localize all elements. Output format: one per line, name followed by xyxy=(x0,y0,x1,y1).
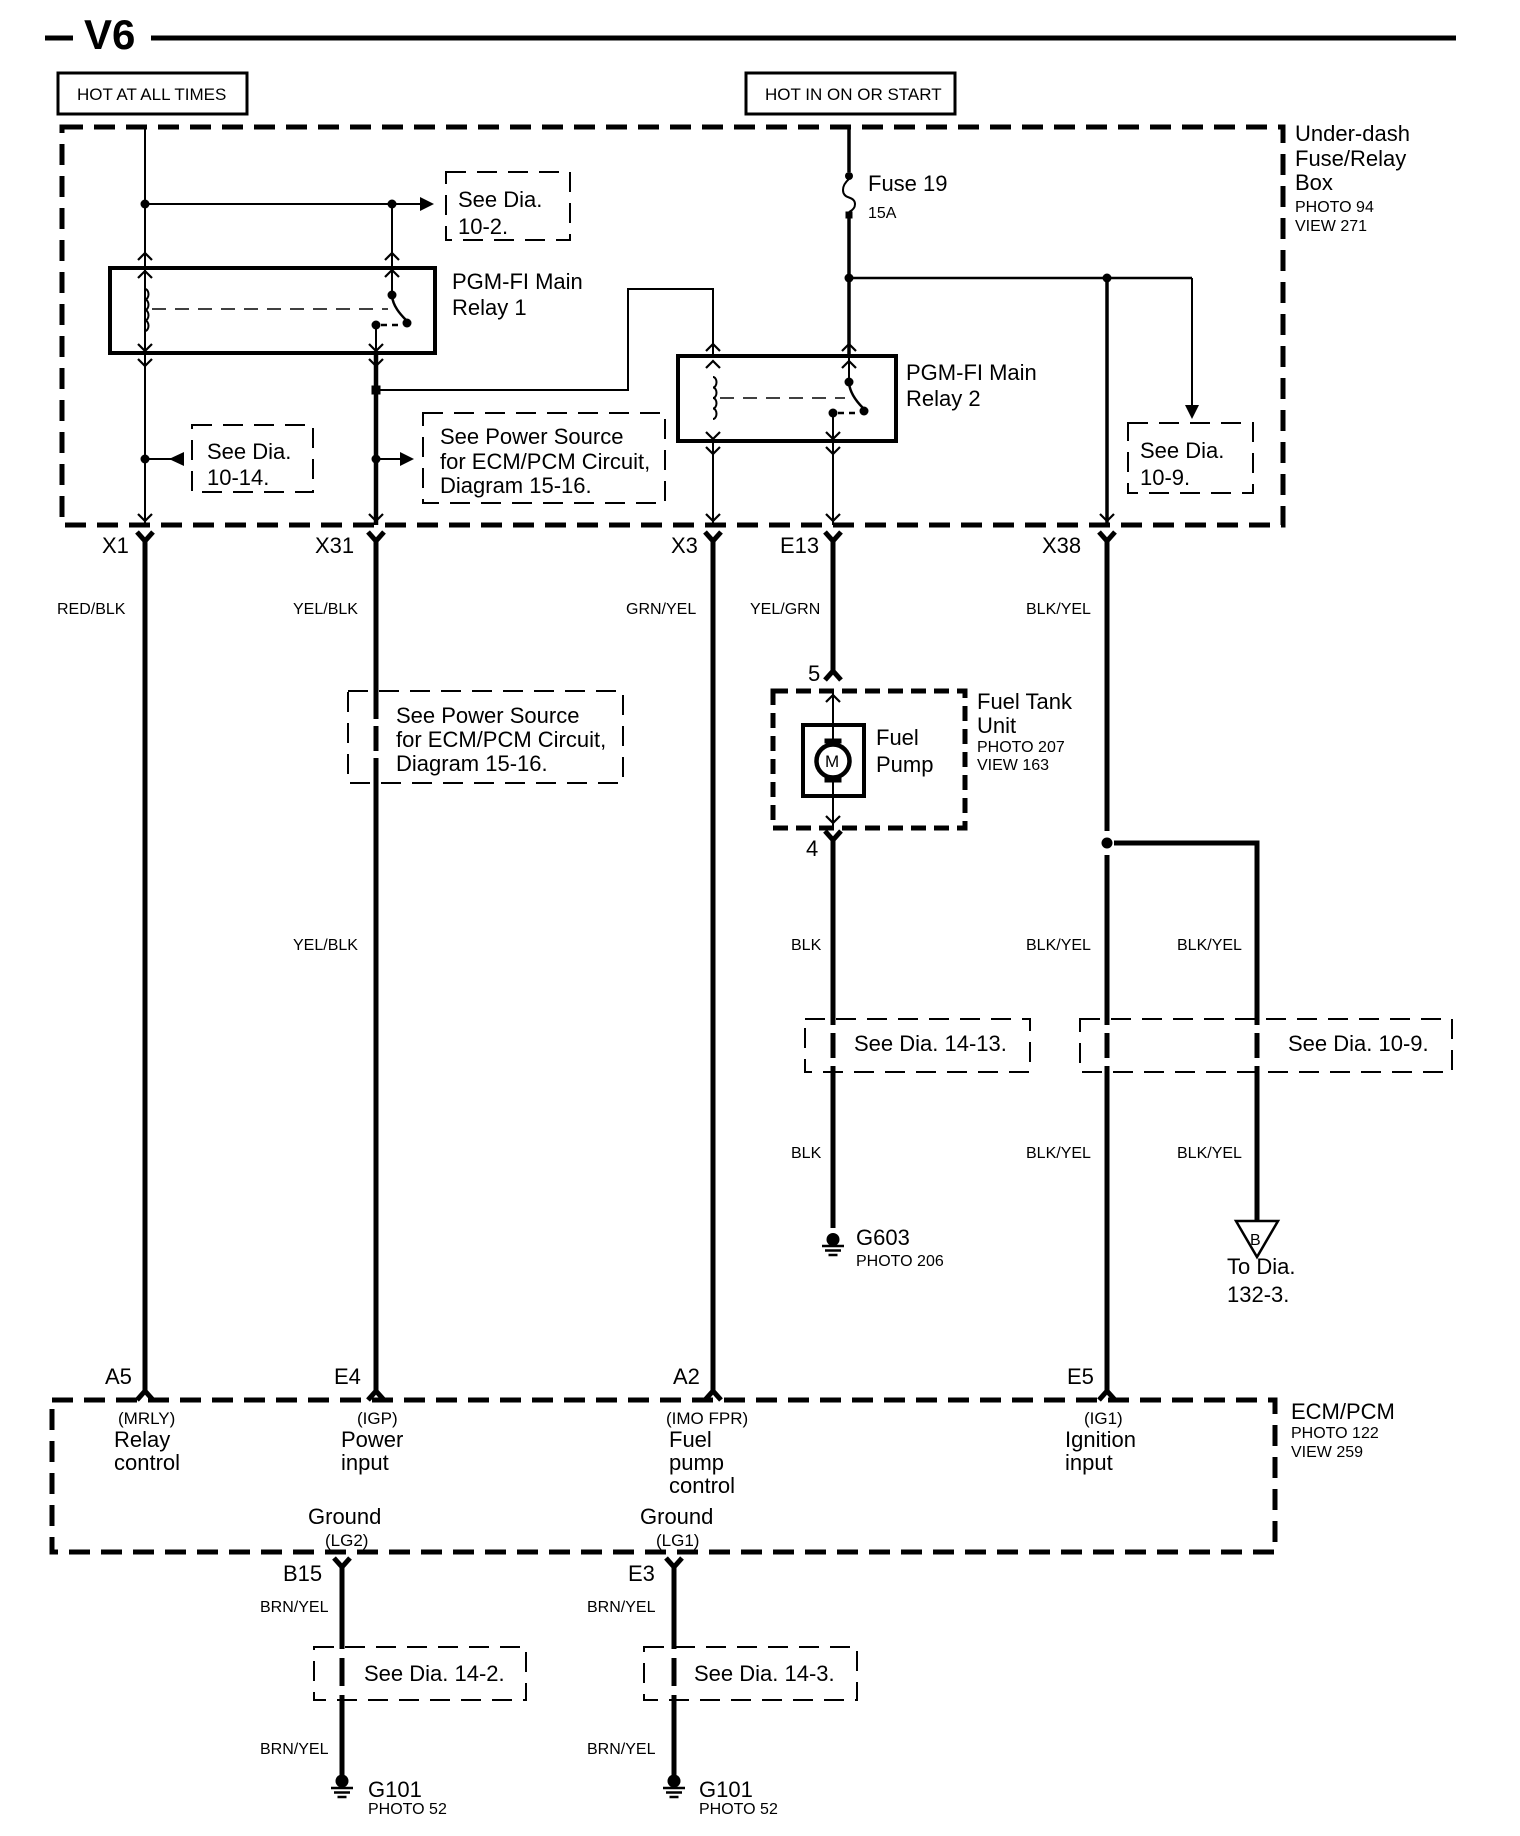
node junction on X1 wire at y459 xyxy=(141,455,150,464)
svg-text:YEL/GRN: YEL/GRN xyxy=(750,601,820,618)
svg-text:E4: E4 xyxy=(334,1364,361,1389)
svg-text:See Dia.: See Dia. xyxy=(458,187,542,212)
box See Dia. 10-14. xyxy=(192,425,313,492)
pin E3 Ground (LG1) xyxy=(628,1504,713,1586)
wire E3 BRN/YEL to G101 xyxy=(672,1565,677,1775)
svg-text:Under-dash: Under-dash xyxy=(1295,121,1410,146)
svg-text:BLK/YEL: BLK/YEL xyxy=(1026,937,1091,954)
svg-text:See Dia.: See Dia. xyxy=(207,439,291,464)
svg-text:BLK: BLK xyxy=(791,937,822,954)
box See Dia. 14-3. xyxy=(644,1647,857,1700)
svg-text:See Power Source: See Power Source xyxy=(440,424,623,449)
node pin 4 fuel tank unit xyxy=(806,831,841,861)
wire fuse feed column xyxy=(847,127,851,172)
svg-text:PHOTO 94: PHOTO 94 xyxy=(1295,199,1374,216)
svg-text:BLK/YEL: BLK/YEL xyxy=(1177,1145,1242,1162)
wire X3 to ECM A2 xyxy=(711,539,716,1391)
node junction X38 tap xyxy=(1103,274,1112,283)
svg-text:PGM-FI Main: PGM-FI Main xyxy=(906,360,1037,385)
ECM/PCM box xyxy=(52,1400,1275,1552)
wire X3 below relay 2 xyxy=(712,441,714,525)
wire X38 to ECM E5 xyxy=(1105,539,1110,1391)
svg-text:(IG1): (IG1) xyxy=(1084,1409,1123,1428)
svg-text:BRN/YEL: BRN/YEL xyxy=(260,1741,329,1758)
label Under-dash Fuse/Relay Box xyxy=(1295,121,1410,235)
wire into fuel pump xyxy=(826,691,840,744)
relay K2 PGM-FI Main Relay 2 xyxy=(678,356,896,441)
svg-text:PHOTO 122: PHOTO 122 xyxy=(1291,1425,1379,1442)
pin E5 (IG1) Ignition input xyxy=(1065,1364,1136,1475)
svg-text:VIEW 271: VIEW 271 xyxy=(1295,218,1367,235)
ground G603 xyxy=(822,1225,944,1270)
svg-text:X38: X38 xyxy=(1042,533,1081,558)
svg-text:(LG2): (LG2) xyxy=(325,1531,368,1550)
label HOT AT ALL TIMES xyxy=(58,73,247,114)
svg-text:Unit: Unit xyxy=(977,713,1016,738)
pin E4 (IGP) Power input xyxy=(334,1364,403,1475)
svg-text:See Dia. 14-13.: See Dia. 14-13. xyxy=(854,1031,1007,1056)
label PGM-FI Main Relay 1 xyxy=(452,269,583,320)
svg-text:(MRLY): (MRLY) xyxy=(118,1409,175,1428)
wire arrow from See Dia. 10-14. xyxy=(145,452,184,466)
svg-text:Relay: Relay xyxy=(114,1427,170,1452)
svg-text:M: M xyxy=(825,752,839,771)
wire color labels row 5 xyxy=(260,1741,656,1758)
relay K1 actuation dashed line xyxy=(152,308,388,310)
pin A5 (MRLY) Relay control xyxy=(105,1364,180,1475)
svg-text:B: B xyxy=(1250,1232,1261,1249)
border exit chevrons xyxy=(138,514,1114,521)
wire branch to triangle B xyxy=(1114,843,1257,1221)
wire bus y278 to X38 and See Dia. 10-9. xyxy=(849,277,1192,280)
svg-text:G101: G101 xyxy=(699,1777,753,1802)
node junction at y204 on X1 wire xyxy=(141,200,150,209)
wire X38 column inside fuse box xyxy=(1105,278,1109,525)
svg-text:See Dia. 10-9.: See Dia. 10-9. xyxy=(1288,1031,1429,1056)
wire color labels row 1 xyxy=(57,601,1091,618)
svg-text:A5: A5 xyxy=(105,1364,132,1389)
svg-text:10-2.: 10-2. xyxy=(458,214,508,239)
svg-text:PHOTO 52: PHOTO 52 xyxy=(699,1801,778,1818)
wire color labels row 4 xyxy=(260,1599,656,1616)
svg-text:(LG1): (LG1) xyxy=(656,1531,699,1550)
under-dash fuse/relay box xyxy=(62,127,1283,525)
svg-text:Ground: Ground xyxy=(640,1504,713,1529)
svg-text:E13: E13 xyxy=(780,533,819,558)
fuel pump box xyxy=(803,725,864,796)
svg-text:control: control xyxy=(669,1473,735,1498)
svg-text:VIEW 259: VIEW 259 xyxy=(1291,1444,1363,1461)
pin A2 (IMO FPR) Fuel pump control xyxy=(666,1364,748,1498)
svg-text:To Dia.: To Dia. xyxy=(1227,1254,1295,1279)
svg-text:GRN/YEL: GRN/YEL xyxy=(626,601,696,618)
fuel tank unit dashed box xyxy=(773,691,965,828)
svg-text:HOT IN ON OR START: HOT IN ON OR START xyxy=(765,85,942,104)
svg-text:pump: pump xyxy=(669,1450,724,1475)
svg-text:for ECM/PCM Circuit,: for ECM/PCM Circuit, xyxy=(440,449,650,474)
svg-text:A2: A2 xyxy=(673,1364,700,1389)
svg-text:10-9.: 10-9. xyxy=(1140,465,1190,490)
svg-text:BLK/YEL: BLK/YEL xyxy=(1177,937,1242,954)
wire E13 BLK to G603 xyxy=(831,838,836,1228)
wire X1 to ECM A5 xyxy=(143,539,148,1391)
svg-text:Box: Box xyxy=(1295,170,1333,195)
svg-text:ECM/PCM: ECM/PCM xyxy=(1291,1399,1395,1424)
svg-text:HOT AT ALL TIMES: HOT AT ALL TIMES xyxy=(77,85,226,104)
svg-text:BLK: BLK xyxy=(791,1145,822,1162)
svg-text:5: 5 xyxy=(808,661,820,686)
svg-text:Diagram 15-16.: Diagram 15-16. xyxy=(440,473,592,498)
node X31 connector xyxy=(315,532,384,558)
wire X1 column inside fuse box xyxy=(144,127,146,525)
wire arrow down into See Dia. 10-9. xyxy=(1185,278,1199,419)
svg-text:See Power Source: See Power Source xyxy=(396,703,579,728)
svg-text:E5: E5 xyxy=(1067,1364,1094,1389)
wire relay 1 switch input xyxy=(385,204,399,295)
relay K2 switch xyxy=(826,344,869,454)
svg-text:E3: E3 xyxy=(628,1561,655,1586)
svg-text:G603: G603 xyxy=(856,1225,910,1250)
svg-text:Fuel: Fuel xyxy=(876,725,919,750)
ground G101 (left) xyxy=(331,1775,447,1819)
svg-text:YEL/BLK: YEL/BLK xyxy=(293,937,358,954)
svg-text:BLK/YEL: BLK/YEL xyxy=(1026,1145,1091,1162)
svg-text:Fuel Tank: Fuel Tank xyxy=(977,689,1073,714)
svg-text:See Dia. 14-3.: See Dia. 14-3. xyxy=(694,1661,835,1686)
svg-text:(IMO FPR): (IMO FPR) xyxy=(666,1409,748,1428)
svg-text:V6: V6 xyxy=(84,11,135,58)
title V6 xyxy=(45,11,1456,58)
wire arrow to See Power Source box xyxy=(376,452,414,466)
node E13 connector xyxy=(780,532,841,558)
node junction on X31 at y459 xyxy=(372,455,381,464)
svg-text:G101: G101 xyxy=(368,1777,422,1802)
fuse F19 15A xyxy=(843,171,948,222)
svg-text:RED/BLK: RED/BLK xyxy=(57,601,126,618)
box See Dia. 10-9. (right) xyxy=(1080,1019,1452,1072)
node pin 5 fuel tank unit xyxy=(808,661,841,686)
svg-text:Ground: Ground xyxy=(308,1504,381,1529)
svg-text:See Dia. 14-2.: See Dia. 14-2. xyxy=(364,1661,505,1686)
svg-text:4: 4 xyxy=(806,836,818,861)
wire feed to relay 2 coil xyxy=(376,289,713,390)
relay K2 coil xyxy=(706,344,720,454)
label PGM-FI Main Relay 2 xyxy=(906,360,1037,411)
box See Dia. 14-13. xyxy=(805,1019,1030,1072)
svg-text:for ECM/PCM Circuit,: for ECM/PCM Circuit, xyxy=(396,727,606,752)
label Fuel Tank Unit xyxy=(977,689,1073,774)
pin B15 Ground (LG2) xyxy=(283,1504,381,1586)
svg-text:X31: X31 xyxy=(315,533,354,558)
node T-junction X31 to relay 2 feed xyxy=(372,386,381,395)
box See Dia. 10-9. (inside fuse box) xyxy=(1128,423,1253,493)
svg-text:15A: 15A xyxy=(868,205,897,222)
motor M fuel pump xyxy=(817,739,850,783)
relay K1 coil xyxy=(138,253,152,366)
label HOT IN ON OR START xyxy=(746,73,955,114)
wire color labels row 3 xyxy=(791,1145,1242,1162)
ground G101 (right) xyxy=(663,1775,778,1819)
svg-text:Fuse/Relay: Fuse/Relay xyxy=(1295,146,1406,171)
svg-text:Diagram 15-16.: Diagram 15-16. xyxy=(396,751,548,776)
node X3 connector xyxy=(671,532,721,558)
node junction X38 branch xyxy=(1102,838,1113,849)
svg-text:X3: X3 xyxy=(671,533,698,558)
svg-text:Power: Power xyxy=(341,1427,403,1452)
wire fuse to relay 2 switch xyxy=(847,216,851,356)
svg-text:input: input xyxy=(1065,1450,1113,1475)
svg-text:Fuse 19: Fuse 19 xyxy=(868,171,948,196)
svg-text:control: control xyxy=(114,1450,180,1475)
wire color labels row 2 xyxy=(293,937,1242,954)
connector B to Dia. 132-3 (triangle) xyxy=(1227,1221,1295,1307)
label ECM/PCM xyxy=(1291,1399,1395,1461)
svg-text:Relay 2: Relay 2 xyxy=(906,386,981,411)
svg-text:BRN/YEL: BRN/YEL xyxy=(587,1741,656,1758)
wire E13 below relay 2 xyxy=(832,441,834,525)
relay K1 PGM-FI Main Relay 1 xyxy=(110,268,435,353)
node junction fuse output y278 xyxy=(845,274,854,283)
svg-text:YEL/BLK: YEL/BLK xyxy=(293,601,358,618)
svg-text:VIEW 163: VIEW 163 xyxy=(977,757,1049,774)
svg-text:PHOTO 207: PHOTO 207 xyxy=(977,739,1065,756)
svg-text:Relay 1: Relay 1 xyxy=(452,295,527,320)
svg-text:132-3.: 132-3. xyxy=(1227,1282,1289,1307)
relay K1 switch xyxy=(369,291,412,367)
svg-text:X1: X1 xyxy=(102,533,129,558)
svg-text:input: input xyxy=(341,1450,389,1475)
wire to See Dia. 10-2. xyxy=(145,197,434,211)
svg-text:B15: B15 xyxy=(283,1561,322,1586)
wire E13 to fuel tank unit xyxy=(831,539,836,671)
svg-text:PHOTO 206: PHOTO 206 xyxy=(856,1253,944,1270)
svg-text:BLK/YEL: BLK/YEL xyxy=(1026,601,1091,618)
svg-text:PHOTO 52: PHOTO 52 xyxy=(368,1801,447,1818)
svg-text:Fuel: Fuel xyxy=(669,1427,712,1452)
node X1 connector xyxy=(102,532,153,558)
box See Power Source for ECM/PCM Circuit, Diagram 15-16. (middle) xyxy=(348,691,623,783)
svg-text:10-14.: 10-14. xyxy=(207,465,269,490)
svg-text:Ignition: Ignition xyxy=(1065,1427,1136,1452)
node X38 connector xyxy=(1042,532,1115,558)
label Fuel Pump xyxy=(876,725,933,777)
svg-text:(IGP): (IGP) xyxy=(357,1409,398,1428)
box See Dia. 10-2. xyxy=(446,172,570,240)
wire out of fuel pump xyxy=(826,778,840,828)
box See Power Source for ECM/PCM Circuit, Diagram 15-16. (upper) xyxy=(423,413,665,503)
wire B15 BRN/YEL to G101 xyxy=(340,1565,345,1775)
svg-text:PGM-FI Main: PGM-FI Main xyxy=(452,269,583,294)
svg-text:BRN/YEL: BRN/YEL xyxy=(587,1599,656,1616)
wire X31 to ECM E4 xyxy=(374,539,379,1391)
relay K2 actuation dashed line xyxy=(720,397,845,399)
svg-text:Pump: Pump xyxy=(876,752,933,777)
box See Dia. 14-2. xyxy=(314,1647,526,1700)
svg-text:BRN/YEL: BRN/YEL xyxy=(260,1599,329,1616)
wire X31 below relay 1 xyxy=(374,353,379,525)
svg-text:See Dia.: See Dia. xyxy=(1140,438,1224,463)
